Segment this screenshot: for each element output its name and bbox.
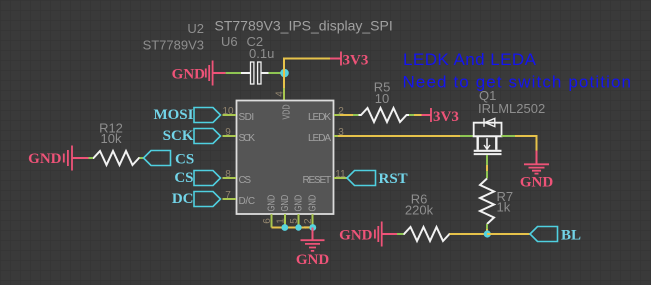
svg-text:D/C: D/C (239, 196, 256, 207)
power port 3V3 (at R5) (431, 108, 459, 125)
pin 10 stub SDI (223, 114, 237, 116)
resistor R7 (vertical) (480, 179, 494, 225)
resistor R6 (404, 227, 451, 241)
svg-text:6: 6 (262, 218, 273, 224)
svg-text:RST: RST (379, 171, 408, 187)
svg-text:ST7789V3_IPS_display_SPI: ST7789V3_IPS_display_SPI (215, 18, 393, 34)
resistor R5 (359, 108, 410, 122)
wire to R5 (green) (353, 114, 359, 116)
svg-text:3V3: 3V3 (343, 53, 369, 69)
svg-text:GND: GND (279, 195, 290, 212)
net label flag RST (347, 171, 408, 188)
svg-text:4: 4 (275, 91, 286, 97)
svg-text:10k: 10k (101, 131, 122, 146)
wire R5 to 3V3 (green) (409, 114, 414, 116)
IC U6 body ST7789V3 (237, 101, 334, 215)
wire pin2 to R5 (yellow) (340, 114, 353, 116)
wire GND to R12 (green) (89, 157, 94, 159)
wire Q1 to GND (green) (502, 135, 516, 137)
power port 3V3 (top) (341, 52, 368, 69)
wire GND to R12 (pink) (72, 157, 89, 159)
svg-text:GND: GND (306, 195, 317, 212)
svg-text:1: 1 (276, 218, 287, 224)
wire R12 to CS flag (green) (140, 157, 144, 159)
ground GND (at C2 left) (172, 61, 213, 86)
svg-text:5: 5 (289, 218, 300, 224)
wire R6 to junction (yellow) (450, 233, 488, 235)
wire Q1 gate down (green) (486, 155, 488, 165)
wire C2 to junction (green) (269, 72, 285, 74)
svg-text:3V3: 3V3 (433, 109, 459, 125)
node junction pin5 (295, 224, 301, 230)
svg-text:9: 9 (225, 127, 231, 138)
pin 8 stub CS (223, 177, 237, 179)
svg-text:DC: DC (172, 191, 194, 207)
pin 3 stub LEDA (green) (334, 135, 338, 137)
svg-text:SCK: SCK (239, 133, 256, 144)
wire to GND (pink) (536, 151, 538, 164)
wire junction up and right to 3V3 (yellow) (284, 59, 330, 74)
wire to 3V3 port (pink) (330, 58, 341, 60)
svg-text:GND: GND (265, 195, 276, 212)
pin 6 stub GND (green) (271, 214, 273, 228)
svg-text:11: 11 (335, 169, 346, 180)
svg-text:GND: GND (172, 67, 206, 83)
pin 5 stub GND (green) (298, 214, 300, 228)
svg-text:VDD: VDD (280, 105, 291, 120)
svg-text:RESET: RESET (303, 175, 332, 186)
svg-text:GND: GND (520, 175, 554, 191)
svg-text:U2: U2 (187, 21, 204, 36)
svg-text:LEDK: LEDK (308, 112, 331, 123)
wire LEDA to Q1 (yellow) (338, 135, 460, 137)
net label flag DC (172, 191, 221, 207)
wire junction down to VDD pin (yellow) (283, 73, 285, 88)
net label flag CS (pin 8) (174, 170, 220, 186)
svg-text:220k: 220k (405, 203, 434, 218)
svg-text:10: 10 (222, 106, 234, 117)
svg-text:LEDA: LEDA (308, 133, 331, 144)
svg-text:MOSI: MOSI (153, 107, 193, 123)
wire LEDA to Q1 (green) (460, 135, 474, 137)
svg-text:Need to get switch potition: Need to get switch potition (403, 73, 633, 92)
node junction pin12 (309, 224, 316, 231)
pin 7 stub D/C (223, 198, 237, 200)
svg-text:SCK: SCK (163, 128, 194, 144)
ground GND (right of Q1) (520, 164, 554, 190)
pin 1 stub GND (green) (284, 214, 286, 228)
svg-text:CS: CS (174, 170, 193, 186)
wire GND to R6 (pink) (382, 233, 398, 235)
svg-text:CS: CS (175, 152, 194, 168)
svg-text:7: 7 (225, 190, 231, 201)
wire GND to C2 (pink) (213, 72, 226, 74)
ground GND (at R12) (28, 146, 72, 171)
pin 4 stub VDD (green) (283, 88, 285, 100)
transistor Q1 IRLML2502 (473, 118, 503, 154)
net label flag CS (left, pull resistor) (144, 151, 195, 168)
svg-text:10: 10 (375, 91, 389, 106)
node junction BL (484, 230, 491, 237)
wire R7 to junction (yellow) (486, 229, 488, 234)
wire junction to BL flag (yellow) (487, 233, 530, 235)
wire Q1 gate down (yellow) (486, 165, 488, 171)
wire GND bus (yellow) (272, 227, 313, 229)
wire R5 to 3V3 (yellow) (414, 114, 422, 116)
wire GND to C2 (green) (226, 72, 242, 74)
net label flag SCK (163, 128, 221, 144)
pin 9 stub SCK (223, 135, 237, 137)
wire Q1 gate down (green 2) (486, 171, 488, 179)
svg-text:SDI: SDI (239, 112, 255, 123)
svg-text:GND: GND (28, 151, 62, 167)
wire R5 to 3V3 (pink) (422, 114, 432, 116)
svg-text:BL: BL (561, 228, 581, 244)
svg-text:8: 8 (225, 169, 231, 180)
svg-text:IRLML2502: IRLML2502 (478, 101, 545, 116)
node junction at VDD (280, 69, 289, 78)
svg-text:0.1u: 0.1u (249, 46, 274, 61)
annotation note (blue) (403, 50, 633, 92)
pin 2 stub LEDK (green) (334, 114, 340, 116)
capacitor C2 (241, 62, 269, 84)
svg-text:GND: GND (296, 252, 330, 268)
svg-text:ST7789V3: ST7789V3 (143, 38, 204, 53)
net label flag BL (530, 227, 581, 244)
pin 12 stub GND (green) (312, 214, 314, 228)
svg-text:LEDK And LEDA: LEDK And LEDA (403, 50, 537, 69)
net label flag MOSI (153, 107, 220, 123)
resistor R12 (93, 151, 140, 165)
wire bus to GND symbol (pink) (312, 228, 314, 241)
svg-text:GND: GND (339, 228, 373, 244)
svg-text:GND: GND (292, 195, 303, 212)
svg-text:U6: U6 (221, 34, 238, 49)
node junction pin1 (281, 224, 288, 231)
wire Q1 to GND (yellow) (515, 136, 537, 151)
svg-text:1k: 1k (497, 200, 511, 215)
svg-text:CS: CS (239, 175, 252, 186)
wire R7 to junction (green) (486, 224, 488, 229)
ground GND (below IC) (296, 240, 330, 268)
pin 11 stub RESET (green) (334, 177, 347, 179)
wire GND to R6 (green) (397, 233, 404, 235)
ground GND (at R6) (339, 222, 382, 247)
